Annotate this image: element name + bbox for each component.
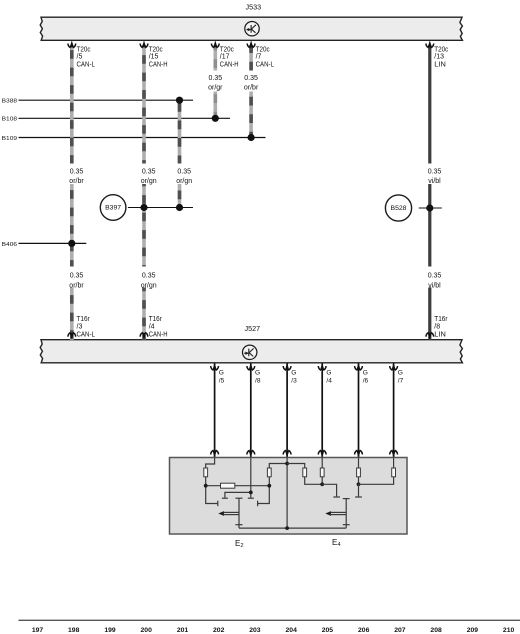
switch unit box E2/E4 — [170, 458, 408, 535]
pin label T16r/4 CAN-H — [149, 316, 168, 338]
svg-text:0.35: 0.35 — [70, 168, 84, 175]
svg-text:210: 210 — [503, 627, 515, 634]
junction dot on B109 line — [248, 134, 255, 141]
branch from G/3 to resistor — [287, 464, 305, 469]
arrow pin T20c/13 — [426, 40, 434, 47]
contact tick left — [217, 501, 219, 507]
ruler line — [19, 619, 520, 621]
svg-text:/5: /5 — [219, 377, 225, 384]
svg-text:204: 204 — [286, 627, 298, 634]
svg-text:or/gn: or/gn — [141, 178, 157, 185]
moving contact bar bottom E4 — [343, 524, 350, 526]
svg-text:/15: /15 — [149, 54, 159, 61]
svg-text:J533: J533 — [246, 3, 262, 12]
svg-text:/13: /13 — [434, 54, 444, 61]
moving contact stem — [238, 498, 240, 528]
wire entry G/6 to resistor — [358, 458, 360, 469]
wire resistor to node dot — [321, 477, 323, 485]
svg-text:CAN-L: CAN-L — [77, 61, 95, 68]
wire node to G/7 resistor — [359, 477, 394, 485]
resistor E4 fourth — [392, 468, 396, 477]
svg-text:198: 198 — [68, 627, 80, 634]
junction dot node E4 right — [357, 482, 361, 486]
svg-text:B109: B109 — [2, 136, 17, 142]
svg-text:197: 197 — [32, 627, 44, 634]
svg-text:207: 207 — [394, 627, 406, 634]
right switch arm — [258, 486, 270, 504]
junction dot on B406 line — [68, 240, 75, 247]
wire size label 0.35 vi/bl upper — [421, 164, 449, 185]
horizontal line node B108 — [2, 117, 230, 123]
svg-text:0.35: 0.35 — [142, 273, 156, 280]
contact bar E4 right — [355, 496, 362, 498]
gateway K symbol in J533 — [245, 22, 259, 36]
wire size label 0.35 or/br lower — [63, 267, 91, 290]
contact bar E4 left — [333, 496, 340, 498]
svg-text:or/br: or/br — [69, 282, 84, 289]
svg-text:G: G — [363, 370, 368, 377]
wire entry G/4 to resistor — [321, 458, 323, 469]
wire CAN-L or/br (T20c/5 to T16r/3) — [70, 45, 74, 340]
connection B397 (CAN low) — [100, 195, 193, 221]
wire CAN-H or/gn (T20c/15 to T16r/4) — [142, 45, 146, 340]
svg-text:LIN: LIN — [434, 331, 446, 338]
pin label T20c/17 CAN-H — [220, 46, 239, 68]
svg-text:T20c: T20c — [256, 46, 270, 53]
wire G/5 — [211, 363, 225, 458]
svg-text:G: G — [255, 370, 260, 377]
svg-text:0.35: 0.35 — [177, 168, 191, 175]
arrow pin T20c/7 — [247, 40, 255, 47]
pin label T20c/5 CAN-L — [77, 46, 95, 68]
moving contact bar top E4 — [343, 498, 350, 500]
bus bar J527 (steering column electronics) — [40, 340, 462, 363]
svg-text:201: 201 — [177, 627, 189, 634]
wire resistor down to node — [305, 477, 323, 485]
pin label T16r/3 CAN-L — [77, 316, 95, 338]
resistor E2 left — [204, 468, 208, 477]
junction dot B528 line / LIN wire — [426, 204, 433, 211]
svg-text:/17: /17 — [220, 54, 230, 61]
connection B528 (LIN) — [385, 195, 441, 221]
svg-text:203: 203 — [249, 627, 261, 634]
svg-text:G: G — [219, 370, 224, 377]
svg-text:/3: /3 — [291, 377, 297, 384]
junction dot G8 branch — [249, 491, 253, 495]
svg-text:/7: /7 — [398, 377, 404, 384]
junction dot node left — [204, 484, 208, 488]
wire size label 0.35 or/gn lower — [135, 267, 163, 290]
svg-text:199: 199 — [104, 627, 116, 634]
pin label T20c/13 LIN — [434, 46, 448, 68]
moving contact bar top — [235, 497, 242, 499]
arrow pin T20c/5 — [68, 40, 76, 47]
svg-text:T20c: T20c — [434, 46, 448, 53]
arrow pin T16r/4 — [140, 332, 148, 339]
svg-text:T20c: T20c — [77, 46, 91, 53]
horizontal line node B406 — [2, 242, 87, 248]
svg-text:0.35: 0.35 — [70, 273, 84, 280]
resistor E2 horizontal — [221, 483, 235, 488]
wire G/8 — [247, 363, 261, 458]
svg-text:T16r: T16r — [149, 316, 163, 323]
ruler numbers — [32, 627, 515, 634]
arrow pin T20c/17 — [211, 40, 219, 47]
svg-text:209: 209 — [467, 627, 479, 634]
svg-text:206: 206 — [358, 627, 370, 634]
arrow pin T16r/8 — [426, 332, 434, 339]
wire size label 0.35 or/gn drop — [170, 164, 198, 185]
svg-text:/3: /3 — [77, 324, 83, 331]
wire entry 1 to resistor — [206, 458, 215, 469]
junction dot G3 top — [285, 462, 289, 466]
svg-text:G: G — [326, 370, 331, 377]
svg-text:B388: B388 — [2, 99, 18, 105]
contact tick right — [257, 501, 259, 507]
arrow pin T16r/3 — [68, 332, 76, 339]
resistor E4 second — [320, 468, 324, 477]
pin label T20c/7 CAN-L — [256, 46, 274, 68]
wire size label 0.35 vi/bl lower — [421, 267, 449, 290]
contact bar under G/8 — [248, 497, 254, 499]
svg-text:B108: B108 — [2, 117, 18, 123]
svg-text:CAN-H: CAN-H — [149, 331, 168, 338]
svg-text:0.35: 0.35 — [244, 75, 258, 82]
svg-text:B397: B397 — [105, 206, 122, 212]
resistor E2 right — [267, 468, 271, 477]
svg-text:CAN-L: CAN-L — [77, 331, 95, 338]
svg-text:B528: B528 — [391, 206, 408, 212]
svg-text:or/gn: or/gn — [141, 282, 157, 289]
svg-text:/4: /4 — [326, 377, 332, 384]
wire resistor to node dot — [358, 477, 360, 485]
horizontal line node B109 — [2, 136, 266, 142]
svg-text:T20c: T20c — [220, 46, 234, 53]
moving contact stem E4 — [345, 499, 347, 528]
svg-text:G: G — [291, 370, 296, 377]
junction dot B397 line / or-gn drop wire — [176, 204, 183, 211]
actuation linkage E4 — [331, 511, 346, 513]
pin label T20c/15 CAN-H — [149, 46, 168, 68]
svg-text:205: 205 — [322, 627, 334, 634]
wire G/4 — [318, 363, 332, 458]
wire entry G/7 to resistor — [393, 458, 395, 469]
wire node to fixed contact — [322, 484, 336, 496]
switch E2 internals — [204, 458, 346, 530]
svg-text:T16r: T16r — [434, 316, 448, 323]
wire resistor to G/3 vertical — [269, 464, 287, 469]
svg-text:vi/bl: vi/bl — [428, 178, 441, 185]
wire entry 2 to contact — [250, 458, 252, 498]
svg-text:/6: /6 — [363, 377, 369, 384]
bottom rail — [239, 527, 346, 529]
svg-text:200: 200 — [141, 627, 153, 634]
svg-text:CAN-L: CAN-L — [256, 61, 274, 68]
svg-text:0.35: 0.35 — [142, 168, 156, 175]
svg-text:202: 202 — [213, 627, 225, 634]
branch to left contact — [225, 492, 251, 497]
svg-text:LIN: LIN — [434, 61, 446, 68]
svg-text:or/gn: or/gn — [176, 178, 192, 185]
junction dot node E4 left — [320, 482, 324, 486]
horizontal line node B388 — [2, 99, 193, 105]
left switch arm — [206, 486, 218, 504]
wire node down to contact — [358, 484, 360, 496]
wire G/3 vertical through box — [286, 458, 288, 528]
wire CAN-L or/br (T20c/7 to node B109) — [249, 45, 253, 138]
svg-text:0.35: 0.35 — [208, 75, 222, 82]
resistor E4 first — [303, 468, 307, 477]
svg-text:J527: J527 — [245, 324, 261, 333]
wire resistor to node — [205, 477, 207, 486]
junction dot B397 line / CAN-H wire — [140, 204, 147, 211]
svg-text:or/br: or/br — [69, 178, 84, 185]
svg-text:/8: /8 — [255, 377, 261, 384]
svg-text:/8: /8 — [434, 324, 440, 331]
junction dot on B388 line — [176, 97, 183, 104]
node line E2 — [206, 485, 270, 487]
pin label T16r/8 LIN — [434, 316, 448, 338]
svg-text:208: 208 — [430, 627, 442, 634]
svg-text:0.35: 0.35 — [428, 273, 442, 280]
wire G/3 — [283, 363, 297, 458]
resistor E4 third — [357, 468, 361, 477]
wire size label 0.35 or/gr — [207, 71, 225, 92]
wire size label 0.35 or/br upper — [63, 164, 91, 185]
svg-text:or/gr: or/gr — [208, 85, 223, 92]
contact bar left branch — [222, 497, 228, 499]
junction dot node right — [267, 484, 271, 488]
wire LIN vi/bl (T20c/13 to T16r/8) — [428, 45, 431, 340]
svg-text:0.35: 0.35 — [428, 168, 442, 175]
wire size label 0.35 or/br — [242, 71, 259, 92]
wire G/7 — [390, 363, 404, 458]
svg-text:T20c: T20c — [149, 46, 163, 53]
K symbol in J527 — [243, 345, 257, 359]
bus bar J533 (gateway) — [40, 17, 462, 40]
arrow pin T20c/15 — [140, 40, 148, 47]
svg-text:/5: /5 — [77, 54, 83, 61]
wire size label 0.35 or/gn upper — [135, 164, 163, 185]
svg-text:or/br: or/br — [244, 85, 259, 92]
svg-text:/7: /7 — [256, 54, 262, 61]
wire or/gn drop (node B388 to node B397) — [178, 100, 182, 207]
svg-text:G: G — [398, 370, 403, 377]
svg-text:CAN-H: CAN-H — [149, 61, 168, 68]
svg-text:B406: B406 — [2, 242, 18, 248]
svg-text:vi/bl: vi/bl — [428, 282, 441, 289]
svg-text:T16r: T16r — [77, 316, 91, 323]
svg-text:CAN-H: CAN-H — [220, 61, 239, 68]
wire CAN-H or/gr (T20c/17 to node B108) — [214, 45, 218, 118]
moving contact bar bottom — [235, 524, 242, 526]
junction dot rail/G3 — [285, 526, 289, 530]
svg-text:/4: /4 — [149, 324, 155, 331]
wire G/6 — [355, 363, 369, 458]
switch E4 internals — [287, 458, 395, 529]
junction dot on B108 line — [212, 115, 219, 122]
wire node up right resistor — [268, 477, 270, 486]
actuation linkage E2 — [224, 511, 239, 513]
